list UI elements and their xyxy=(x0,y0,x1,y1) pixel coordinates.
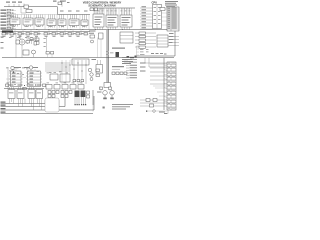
junction cluster right of 5MHz xyxy=(127,56,137,59)
label IC part numbers xyxy=(12,17,131,26)
IC U12 xyxy=(120,32,133,43)
relay K1 xyxy=(75,91,80,98)
wire bus upper middle xyxy=(90,7,135,9)
resistor pack RN2 xyxy=(48,91,59,98)
wire rows into J2 xyxy=(140,63,167,85)
capacitor C2 xyxy=(26,37,30,44)
wire vertical drops below bus to sub band xyxy=(7,30,81,33)
label marks far-left mid column xyxy=(1,37,4,49)
wire bottom bus line 4 xyxy=(1,112,94,114)
label column right of center xyxy=(126,65,137,79)
resistor R15 xyxy=(135,32,156,34)
jack J3 circle xyxy=(16,39,25,58)
transistor Q9 xyxy=(90,78,93,81)
IC U16 xyxy=(72,59,89,65)
wire CPU to J1 stubs xyxy=(162,9,168,25)
transistor Q7 xyxy=(103,91,108,100)
IC U23 xyxy=(36,90,43,99)
double bus wire vertical xyxy=(107,30,108,83)
IC U14 xyxy=(9,71,23,87)
transistor Q5 xyxy=(88,68,92,72)
connector J1 table xyxy=(167,7,179,31)
capacitor C10 xyxy=(62,85,68,90)
label marks below resistor rows right xyxy=(140,49,149,55)
IC U5 xyxy=(58,15,66,28)
label marks inside bottom-left ICs xyxy=(9,92,41,95)
label bars above mid rail xyxy=(60,11,88,12)
IC U3 xyxy=(35,15,44,28)
wire bottom-left vertical xyxy=(7,67,9,89)
resistor R12 xyxy=(84,33,88,36)
transistor Q3 xyxy=(11,66,15,70)
junction dots on data bus xyxy=(12,28,123,31)
resistor R24 xyxy=(90,8,93,11)
crystal Y1 xyxy=(58,2,62,7)
IC U2 xyxy=(23,15,33,28)
wire data bus main xyxy=(1,29,179,31)
capacitor C5 xyxy=(6,84,9,87)
capacitor C12 xyxy=(78,85,84,90)
label above U19 xyxy=(92,59,97,60)
wire CPU row 1 xyxy=(140,6,153,8)
resistor R19 xyxy=(34,42,37,46)
label +5 top middle xyxy=(53,1,57,2)
wire bottom bus line 1 xyxy=(1,96,53,104)
resistor R10 xyxy=(68,33,74,36)
transistor Q6 xyxy=(90,73,94,77)
resistor R17 xyxy=(135,39,156,41)
resistor R23 xyxy=(101,87,112,91)
IC U7 xyxy=(81,15,88,28)
resistor R18 xyxy=(135,43,156,45)
label marks bottom left cluster xyxy=(6,68,34,72)
wire CPU row 2 xyxy=(140,9,153,11)
resistor R22 xyxy=(100,87,103,90)
capacitor C15 xyxy=(150,104,154,107)
svg-text:VIDEO CONVERSION / MEMORY: VIDEO CONVERSION / MEMORY xyxy=(83,1,122,4)
wire vertical mid-left xyxy=(19,35,21,39)
label column mid right upper xyxy=(124,57,137,63)
IC U6 xyxy=(69,15,79,28)
label specks center cluster xyxy=(49,72,68,74)
capacitor C19 xyxy=(51,52,54,58)
wire pin combs below bottom-left ICs xyxy=(10,99,42,111)
wire long horizontal mid xyxy=(2,57,174,59)
capacitor C18 xyxy=(46,52,49,58)
label marks above sub band xyxy=(3,35,80,38)
capacitor C4 xyxy=(160,8,165,11)
label ticks beside center-left vertical xyxy=(44,38,46,47)
label pins below band ICs xyxy=(12,25,86,28)
resistor R26 xyxy=(135,46,156,48)
resistor R9 xyxy=(60,33,66,36)
wire bottom center vertical xyxy=(92,90,94,105)
wire right vertical rail xyxy=(174,10,176,56)
resistor R3 xyxy=(10,33,16,36)
wire harness rows center xyxy=(45,63,70,71)
wire right feed vertical xyxy=(163,58,165,110)
wire verticals center xyxy=(74,60,86,84)
wire CPU row 6 xyxy=(140,21,153,23)
label 2 dark mark xyxy=(116,52,120,57)
relay K2 xyxy=(81,91,86,98)
inductor L1 xyxy=(112,66,124,70)
label R xyxy=(103,107,105,109)
wire bottom-left horizontal xyxy=(4,88,44,90)
resistor R13 xyxy=(35,38,39,44)
label sub band texts xyxy=(6,32,84,35)
IC U20 xyxy=(8,87,15,99)
transistor Q1 xyxy=(32,50,36,57)
capacitor C6 xyxy=(23,88,26,90)
resistor pack RN4 xyxy=(87,91,90,98)
wire CPU row 5 xyxy=(140,18,153,20)
connector P1 rows (left edge input labels) xyxy=(1,9,17,29)
wire CPU row 8 xyxy=(140,27,153,29)
wire comb below relay blocks xyxy=(75,97,86,104)
IC U19 xyxy=(96,60,103,73)
resistor R7 xyxy=(44,33,50,36)
resistor R6 xyxy=(34,33,40,36)
wire Q7 Q8 risers xyxy=(100,86,112,99)
resistor R25 xyxy=(94,8,97,11)
capacitor C11 xyxy=(70,85,76,90)
IC U1 xyxy=(10,15,20,27)
label +5V xyxy=(6,2,10,3)
wire CPU row 3 xyxy=(140,12,153,14)
resistor R21 xyxy=(96,74,100,77)
wire data bus second xyxy=(1,31,91,33)
label mid cluster xyxy=(97,92,102,93)
wire J2 bottom stub xyxy=(164,110,168,114)
note text block top right xyxy=(165,1,178,7)
wire vertical mid-left outer xyxy=(15,35,17,58)
label marks below J2 xyxy=(159,112,167,115)
label pin numbers above memory ICs xyxy=(94,10,131,13)
capacitor C9 xyxy=(54,85,60,90)
IC U11 xyxy=(23,50,29,55)
wire bus fanout above memory ICs xyxy=(94,8,132,15)
capacitor C8 xyxy=(46,85,52,90)
capacitor C3 xyxy=(30,37,33,44)
bottom-left section labels xyxy=(14,67,38,68)
transistor Q10 xyxy=(146,110,167,113)
capacitor C17 xyxy=(30,37,33,41)
CPU chip body xyxy=(153,5,162,29)
label bars above bottom-left ICs xyxy=(9,85,42,86)
wire top-left power rail xyxy=(4,4,90,15)
label row above right long wire xyxy=(151,53,167,55)
wire bottom bus line 3 xyxy=(1,96,95,110)
label near crystal xyxy=(63,1,70,4)
junction specks bottom-left cluster xyxy=(13,71,36,87)
connector P2 shield box xyxy=(2,31,13,33)
IC U8 xyxy=(93,8,104,30)
label rows below J1 right edge xyxy=(169,33,174,43)
IC U22 xyxy=(28,87,35,99)
wire verticals center low xyxy=(62,60,70,84)
resistor R5 xyxy=(26,33,32,36)
label 5MHz xyxy=(112,48,125,49)
wire right long horizontal xyxy=(135,55,175,57)
label marks below 5MHz xyxy=(106,51,114,55)
wire IC U13 outputs xyxy=(168,37,179,46)
transistor Q2 xyxy=(89,31,96,44)
wire CPU row 4 xyxy=(140,15,153,17)
wire CPU row 7 xyxy=(140,24,153,26)
IC U10 xyxy=(120,8,132,30)
transistor Q4 xyxy=(29,66,33,70)
label X1 xyxy=(60,1,65,2)
capacitor C14 xyxy=(153,99,157,102)
junction dots center low xyxy=(62,63,87,72)
resistor R1 xyxy=(21,7,32,13)
IC U17 xyxy=(50,74,58,80)
wire bottom right harness xyxy=(140,100,167,106)
resistor R2 xyxy=(2,33,8,36)
IC U15 xyxy=(26,71,42,87)
resistor R8 xyxy=(52,33,58,36)
resistor R16 xyxy=(135,36,156,38)
resistor row center small xyxy=(73,80,84,82)
transistor Q8 xyxy=(110,91,115,100)
capacitor C16 xyxy=(35,37,37,40)
capacitor C7 xyxy=(43,84,46,87)
resistor R11 xyxy=(76,33,82,36)
label marks center low xyxy=(47,72,83,83)
label marks far left mid xyxy=(1,36,28,39)
resistor R20 xyxy=(96,69,100,72)
capacitor C1 xyxy=(24,5,29,9)
wire elbow feeds into J2 top xyxy=(145,58,167,67)
wire bottom left cluster links xyxy=(6,69,35,79)
title text xyxy=(83,1,122,10)
note text bottom xyxy=(112,104,133,110)
resistor R14 xyxy=(99,33,104,39)
wire bottom bus line 2 xyxy=(1,98,66,107)
IC U9 xyxy=(106,8,118,30)
label row notes mid right xyxy=(122,57,133,64)
IC U21 xyxy=(17,87,24,99)
wire diag stubs J2 xyxy=(164,65,167,107)
wire bottom right entries xyxy=(153,86,167,96)
resistor R4 xyxy=(18,33,24,36)
wire column bus crossing IC band xyxy=(22,15,90,30)
connector J2 table xyxy=(167,62,176,110)
label VCC xyxy=(12,2,16,3)
wire tick column mid-right xyxy=(137,46,140,56)
wire sub band link xyxy=(2,33,89,35)
IC U13 xyxy=(157,35,168,47)
IC U4 xyxy=(47,15,56,28)
wire vertical stub center xyxy=(46,36,48,54)
wire mid right verticals xyxy=(98,38,102,58)
blank label box xyxy=(45,98,59,112)
capacitor C13 xyxy=(146,99,150,102)
IC U18 xyxy=(60,74,70,82)
svg-text:SCHEMATIC DIAGRAM: SCHEMATIC DIAGRAM xyxy=(88,5,115,8)
resistor network RN1 xyxy=(112,72,127,75)
label GND xyxy=(18,2,22,3)
resistor pack RN3 xyxy=(61,91,72,98)
label specks bottom-left cluster xyxy=(7,69,40,85)
diode D1 xyxy=(104,83,111,88)
